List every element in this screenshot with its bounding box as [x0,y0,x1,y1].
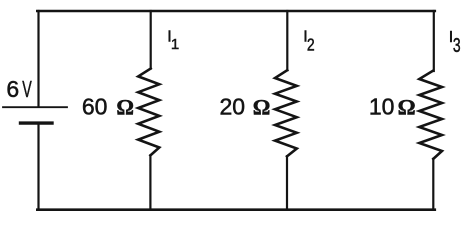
svg-text:Ω: Ω [398,94,416,119]
svg-text:V: V [22,78,32,103]
svg-text:20: 20 [220,93,246,119]
svg-text:3: 3 [453,33,461,56]
svg-text:2: 2 [307,35,315,55]
svg-text:6: 6 [6,76,19,102]
svg-text:1: 1 [171,36,179,53]
svg-text:Ω: Ω [116,94,134,119]
svg-text:60: 60 [82,93,108,119]
svg-text:10: 10 [369,93,395,119]
svg-text:Ω: Ω [253,94,271,119]
